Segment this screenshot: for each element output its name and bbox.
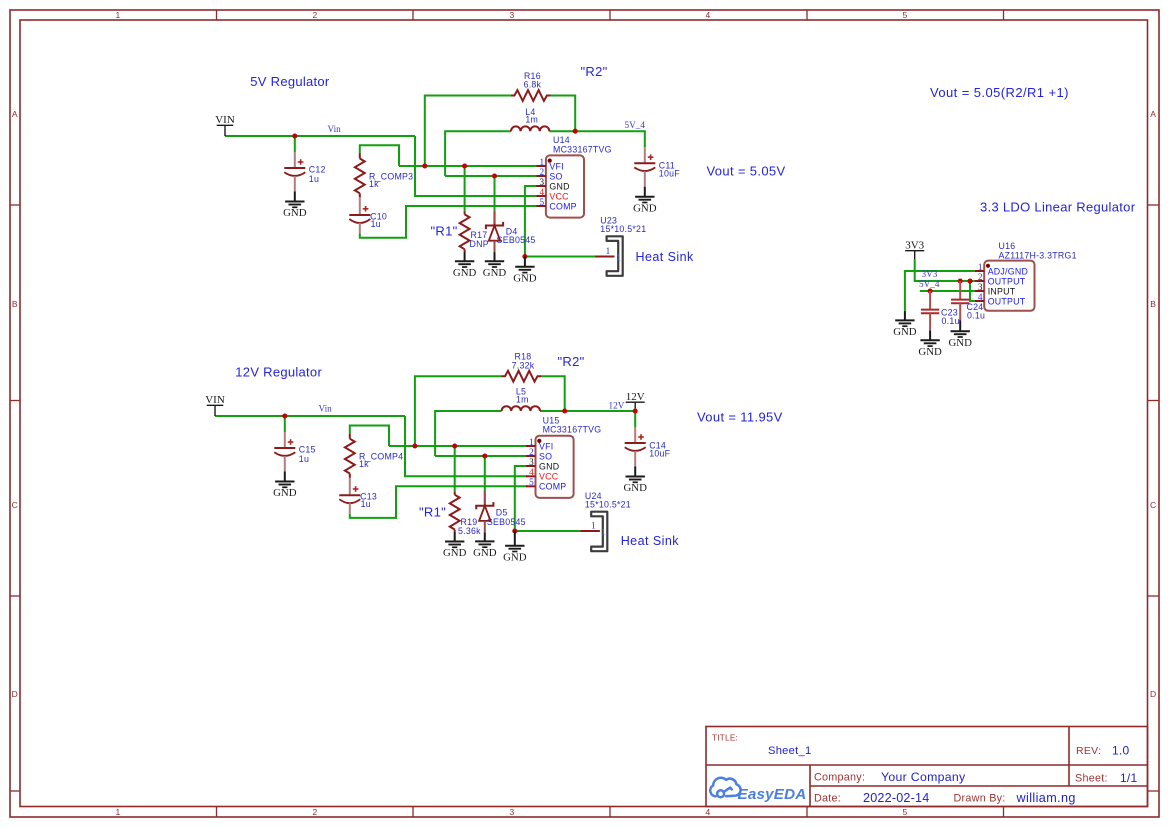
- R17 labels: [470, 230, 489, 249]
- svg-text:A: A: [12, 109, 18, 119]
- D5 labels: [487, 508, 526, 528]
- svg-text:3: 3: [540, 177, 545, 187]
- ground under D4: [483, 252, 507, 279]
- wire inductor to output cap (5V): [549, 131, 644, 147]
- svg-text:1u: 1u: [309, 174, 319, 184]
- svg-text:3V3: 3V3: [922, 269, 938, 279]
- svg-text:SO: SO: [539, 451, 552, 461]
- wire R_COMP top to VFI (5V): [360, 145, 399, 166]
- svg-text:EasyEDA: EasyEDA: [738, 786, 807, 803]
- wire VFI line (12V): [389, 445, 528, 447]
- svg-text:1: 1: [606, 246, 611, 256]
- svg-text:4: 4: [978, 292, 983, 302]
- svg-text:10uF: 10uF: [649, 449, 670, 459]
- svg-text:3: 3: [510, 10, 515, 20]
- capacitor C24: [951, 281, 969, 321]
- IC U15 MC33167TVG: [526, 436, 574, 498]
- L4 labels: [525, 107, 538, 125]
- svg-text:"R2": "R2": [581, 64, 608, 79]
- title block texts: [712, 734, 1138, 806]
- svg-text:7.32k: 7.32k: [512, 360, 535, 370]
- svg-text:DNP: DNP: [470, 239, 489, 249]
- U14 labels: [553, 135, 612, 154]
- svg-text:SEB0545: SEB0545: [497, 235, 536, 245]
- ground under C11: [633, 187, 657, 215]
- svg-text:10uF: 10uF: [659, 169, 680, 179]
- svg-text:2: 2: [540, 167, 545, 177]
- svg-text:GND: GND: [473, 547, 497, 559]
- svg-text:GND: GND: [503, 551, 527, 563]
- svg-text:GND: GND: [623, 482, 647, 494]
- svg-text:3.3 LDO Linear Regulator: 3.3 LDO Linear Regulator: [980, 200, 1136, 215]
- svg-text:5V_4: 5V_4: [919, 279, 940, 289]
- svg-text:4: 4: [529, 467, 534, 477]
- wire VIN to VCC pin 4 (12V): [405, 416, 528, 476]
- svg-text:1u: 1u: [299, 454, 309, 464]
- wire COMP to C_comp (5V): [360, 206, 538, 238]
- wire inductor to output cap (12V): [540, 411, 635, 427]
- ground under C15: [273, 472, 297, 500]
- svg-text:4: 4: [706, 10, 711, 20]
- svg-text:1k: 1k: [359, 459, 369, 469]
- svg-text:1u: 1u: [371, 219, 381, 229]
- svg-text:0.1u: 0.1u: [942, 316, 960, 326]
- svg-text:6.8k: 6.8k: [524, 80, 542, 90]
- port VIN (12V): [205, 394, 225, 416]
- L5 labels: [516, 387, 529, 405]
- svg-text:"R2": "R2": [558, 354, 585, 369]
- wire to heat sink (5V): [525, 256, 595, 258]
- junction output (5V): [573, 129, 578, 134]
- resistor R16: [511, 90, 550, 101]
- svg-text:INPUT: INPUT: [988, 286, 1016, 296]
- heat sink pin stub (5V): [595, 256, 615, 258]
- wire VFI line (5V): [399, 165, 538, 167]
- wire VFI down to R1 (12V): [454, 446, 456, 492]
- R16 labels: [524, 71, 542, 90]
- ground ADJ pin (LDO): [893, 311, 917, 338]
- svg-text:1: 1: [116, 10, 121, 20]
- svg-text:AZ1117H-3.3TRG1: AZ1117H-3.3TRG1: [999, 250, 1077, 260]
- junction C24 (LDO): [958, 278, 963, 283]
- svg-text:3: 3: [510, 807, 515, 817]
- ground under C14: [623, 467, 647, 495]
- zener diode D4: [486, 211, 503, 252]
- svg-text:2: 2: [529, 447, 534, 457]
- svg-text:2022-02-14: 2022-02-14: [863, 791, 929, 805]
- svg-text:5: 5: [540, 197, 545, 207]
- svg-text:5V Regulator: 5V Regulator: [250, 74, 330, 89]
- svg-text:B: B: [12, 299, 18, 309]
- svg-text:VFI: VFI: [549, 161, 563, 171]
- wire rail to input cap (5V): [294, 136, 296, 152]
- svg-text:1k: 1k: [369, 179, 379, 189]
- ground chip GND pin (5V): [513, 257, 537, 285]
- svg-text:Vin: Vin: [328, 124, 342, 134]
- svg-text:MC33167TVG: MC33167TVG: [543, 425, 602, 435]
- svg-text:GND: GND: [539, 461, 559, 471]
- resistor R18: [502, 371, 541, 382]
- title block: [706, 727, 1148, 807]
- junction R1 (12V): [452, 443, 457, 448]
- svg-text:3: 3: [978, 282, 983, 292]
- wire rail to input cap (12V): [284, 416, 286, 432]
- svg-text:5: 5: [903, 10, 908, 20]
- svg-text:C12: C12: [309, 164, 326, 174]
- svg-text:A: A: [1150, 109, 1156, 119]
- svg-text:Heat Sink: Heat Sink: [621, 534, 680, 548]
- svg-text:VIN: VIN: [205, 394, 225, 406]
- svg-text:15*10.5*21: 15*10.5*21: [585, 500, 631, 510]
- ground chip GND pin (12V): [503, 531, 527, 563]
- port 3V3 (LDO): [905, 240, 924, 260]
- wire 3V3 to OUTPUT pin 2 (LDO): [915, 259, 975, 281]
- junction VFI/feedback (5V): [422, 163, 427, 168]
- wire SO down to diode (5V): [494, 176, 496, 211]
- svg-text:"R1": "R1": [431, 224, 458, 239]
- ground under C23: [918, 331, 942, 358]
- svg-text:1m: 1m: [525, 115, 538, 125]
- C13 labels: [360, 492, 377, 510]
- capacitor C23: [921, 291, 939, 331]
- ground under C24: [948, 320, 972, 348]
- svg-text:Vout = 5.05V: Vout = 5.05V: [707, 164, 786, 179]
- svg-text:1/1: 1/1: [1120, 771, 1138, 785]
- svg-text:GND: GND: [893, 326, 917, 338]
- EasyEDA logo: [710, 778, 740, 798]
- svg-text:D: D: [12, 689, 18, 699]
- svg-text:D5: D5: [496, 508, 508, 518]
- junction VFI/feedback (12V): [412, 443, 417, 448]
- wire feedback resistor to output (5V): [550, 96, 575, 132]
- U23 labels: [600, 215, 646, 262]
- C12 labels: [309, 164, 326, 184]
- svg-text:2: 2: [313, 10, 318, 20]
- wire VFI up to feedback resistor (5V): [425, 96, 511, 167]
- wire OUTPUT pin 2 to pin 4 (LDO): [970, 281, 975, 301]
- svg-text:SEB0545: SEB0545: [487, 517, 526, 527]
- port VIN (5V): [215, 114, 235, 136]
- junction C23 (LDO): [928, 288, 933, 293]
- svg-text:3V3: 3V3: [905, 240, 924, 252]
- junction R1 (5V): [462, 163, 467, 168]
- svg-text:1: 1: [617, 252, 622, 262]
- C24 labels: [967, 302, 986, 321]
- wire SO line (12V): [435, 455, 527, 457]
- junction GND/heat sink (12V): [512, 528, 517, 533]
- wire to heat sink (12V): [515, 530, 581, 532]
- wire SO up to inductor (5V): [445, 131, 511, 176]
- svg-text:VFI: VFI: [539, 441, 553, 451]
- svg-text:COMP: COMP: [549, 201, 576, 211]
- svg-text:Heat Sink: Heat Sink: [636, 250, 695, 264]
- wire GND pin (5V): [525, 186, 538, 257]
- svg-text:5V_4: 5V_4: [625, 120, 646, 130]
- wire ADJ/GND pin 1 to ground (LDO): [905, 271, 975, 311]
- svg-text:VCC: VCC: [549, 191, 569, 201]
- capacitor C13 (12V comp): [339, 478, 360, 514]
- svg-text:VCC: VCC: [539, 472, 559, 482]
- wire R_COMP top to VFI (12V): [350, 426, 389, 447]
- ground under R17: [453, 251, 477, 278]
- svg-text:1.0: 1.0: [1112, 744, 1130, 758]
- svg-text:5: 5: [903, 807, 908, 817]
- svg-text:COMP: COMP: [539, 482, 566, 492]
- svg-text:3: 3: [529, 457, 534, 467]
- wire INPUT pin 3 net 5V_4 (LDO): [920, 290, 975, 292]
- ground under D5: [473, 532, 497, 559]
- svg-text:12V Regulator: 12V Regulator: [235, 365, 322, 380]
- svg-text:1: 1: [591, 521, 596, 531]
- svg-text:5: 5: [529, 477, 534, 487]
- junction diode (12V): [482, 453, 487, 458]
- zener diode D5: [476, 491, 493, 532]
- svg-text:C15: C15: [299, 444, 316, 454]
- svg-text:Vout = 11.95V: Vout = 11.95V: [697, 410, 783, 425]
- svg-text:2: 2: [978, 272, 983, 282]
- svg-text:REV:: REV:: [1076, 745, 1101, 757]
- svg-text:4: 4: [540, 187, 545, 197]
- svg-text:Date:: Date:: [814, 793, 841, 805]
- svg-text:5.36k: 5.36k: [458, 526, 481, 536]
- C10 labels: [370, 211, 387, 229]
- wire SO up to inductor (12V): [435, 411, 502, 456]
- svg-text:1: 1: [540, 157, 545, 167]
- svg-text:1: 1: [529, 437, 534, 447]
- svg-text:ADJ/GND: ADJ/GND: [988, 266, 1028, 276]
- svg-text:C: C: [1150, 500, 1156, 510]
- IC U16 AZ1117H-3.3TRG1: [975, 261, 1035, 311]
- svg-text:MC33167TVG: MC33167TVG: [553, 144, 612, 154]
- junction 12V port: [633, 408, 638, 413]
- wire VFI up to feedback resistor (12V): [415, 376, 502, 446]
- R_COMP4 labels: [359, 452, 403, 470]
- junction output (12V): [562, 408, 567, 413]
- U24 labels: [585, 491, 631, 537]
- svg-text:OUTPUT: OUTPUT: [988, 276, 1026, 286]
- svg-text:12V: 12V: [609, 400, 625, 410]
- svg-text:1: 1: [978, 262, 983, 272]
- capacitor C10 (5V comp): [349, 197, 370, 233]
- wire SO down to diode (12V): [484, 456, 486, 491]
- svg-text:2: 2: [313, 807, 318, 817]
- svg-text:Sheet_1: Sheet_1: [768, 745, 811, 757]
- wire COMP to C_comp (12V): [350, 486, 528, 518]
- junction input cap (5V): [292, 133, 297, 138]
- svg-text:12V: 12V: [626, 391, 645, 403]
- wire VIN to VCC pin 4 (5V): [415, 136, 538, 196]
- svg-text:SO: SO: [549, 171, 562, 181]
- capacitor C14 (12V output): [625, 427, 646, 467]
- svg-text:4: 4: [706, 807, 711, 817]
- svg-text:Drawn By:: Drawn By:: [954, 793, 1006, 805]
- heat sink U23: [607, 236, 623, 275]
- port 12V (output): [626, 391, 645, 409]
- svg-text:1: 1: [116, 807, 121, 817]
- junction pin4 branch (LDO): [967, 278, 972, 283]
- svg-text:GND: GND: [443, 547, 467, 559]
- capacitor C12 (5V input): [284, 152, 305, 192]
- wire GND pin (12V): [515, 466, 528, 531]
- svg-text:"R1": "R1": [419, 505, 446, 520]
- svg-text:GND: GND: [549, 181, 569, 191]
- svg-text:D: D: [1150, 689, 1156, 699]
- svg-text:william.ng: william.ng: [1016, 791, 1076, 805]
- wire VIN rail (5V): [225, 135, 415, 137]
- U16 labels: [999, 241, 1077, 260]
- svg-text:TITLE:: TITLE:: [712, 734, 738, 743]
- junction input cap (12V): [282, 413, 287, 418]
- wire VIN rail (12V): [215, 415, 405, 417]
- svg-text:GND: GND: [948, 337, 972, 349]
- R_COMP3 labels: [369, 172, 413, 190]
- ground under R19: [443, 532, 467, 559]
- svg-text:15*10.5*21: 15*10.5*21: [600, 224, 646, 234]
- C11 labels: [659, 161, 680, 179]
- R19 labels: [458, 517, 481, 536]
- svg-text:GND: GND: [483, 267, 507, 279]
- capacitor C11 (5V output): [634, 147, 655, 187]
- R18 labels: [512, 352, 535, 371]
- C14 labels: [649, 441, 670, 459]
- U15 labels: [543, 415, 602, 434]
- heat sink U24: [591, 512, 607, 552]
- svg-text:C: C: [12, 500, 18, 510]
- svg-text:GND: GND: [918, 346, 942, 358]
- svg-text:Sheet:: Sheet:: [1075, 773, 1108, 785]
- heat sink pin stub (12V): [580, 530, 600, 532]
- svg-text:GND: GND: [633, 202, 657, 214]
- ground under C12: [283, 192, 307, 220]
- wire SO line (5V): [445, 175, 538, 177]
- C23 labels: [941, 308, 960, 326]
- svg-text:OUTPUT: OUTPUT: [988, 296, 1026, 306]
- inductor L5: [502, 406, 540, 411]
- svg-text:Vin: Vin: [319, 404, 333, 414]
- svg-text:GND: GND: [283, 207, 307, 219]
- D4 labels: [497, 227, 536, 246]
- C15 labels: [299, 444, 316, 464]
- wire VFI down to R1 (5V): [464, 166, 466, 211]
- svg-text:B: B: [1150, 299, 1156, 309]
- svg-text:1u: 1u: [361, 499, 371, 509]
- svg-text:GND: GND: [513, 273, 537, 285]
- junction GND/heat sink (5V): [522, 254, 527, 259]
- resistor R19: [450, 492, 460, 532]
- resistor R_COMP4: [345, 434, 355, 478]
- svg-text:1m: 1m: [516, 394, 529, 404]
- svg-text:VIN: VIN: [215, 114, 235, 126]
- junction diode (5V): [492, 173, 497, 178]
- svg-text:Vout = 5.05(R2/R1 +1): Vout = 5.05(R2/R1 +1): [930, 85, 1069, 100]
- inductor L4: [511, 126, 549, 131]
- capacitor C15 (12V input): [274, 432, 295, 472]
- svg-text:Company:: Company:: [814, 772, 865, 784]
- svg-text:0.1u: 0.1u: [967, 311, 985, 321]
- resistor R_COMP3: [355, 154, 365, 198]
- resistor R17: [460, 211, 470, 251]
- IC U14 MC33167TVG: [536, 155, 584, 217]
- svg-text:Your Company: Your Company: [881, 770, 966, 784]
- svg-text:GND: GND: [273, 487, 297, 499]
- svg-text:1: 1: [601, 527, 606, 537]
- svg-text:GND: GND: [453, 267, 477, 279]
- wire feedback resistor to output (12V): [541, 376, 565, 411]
